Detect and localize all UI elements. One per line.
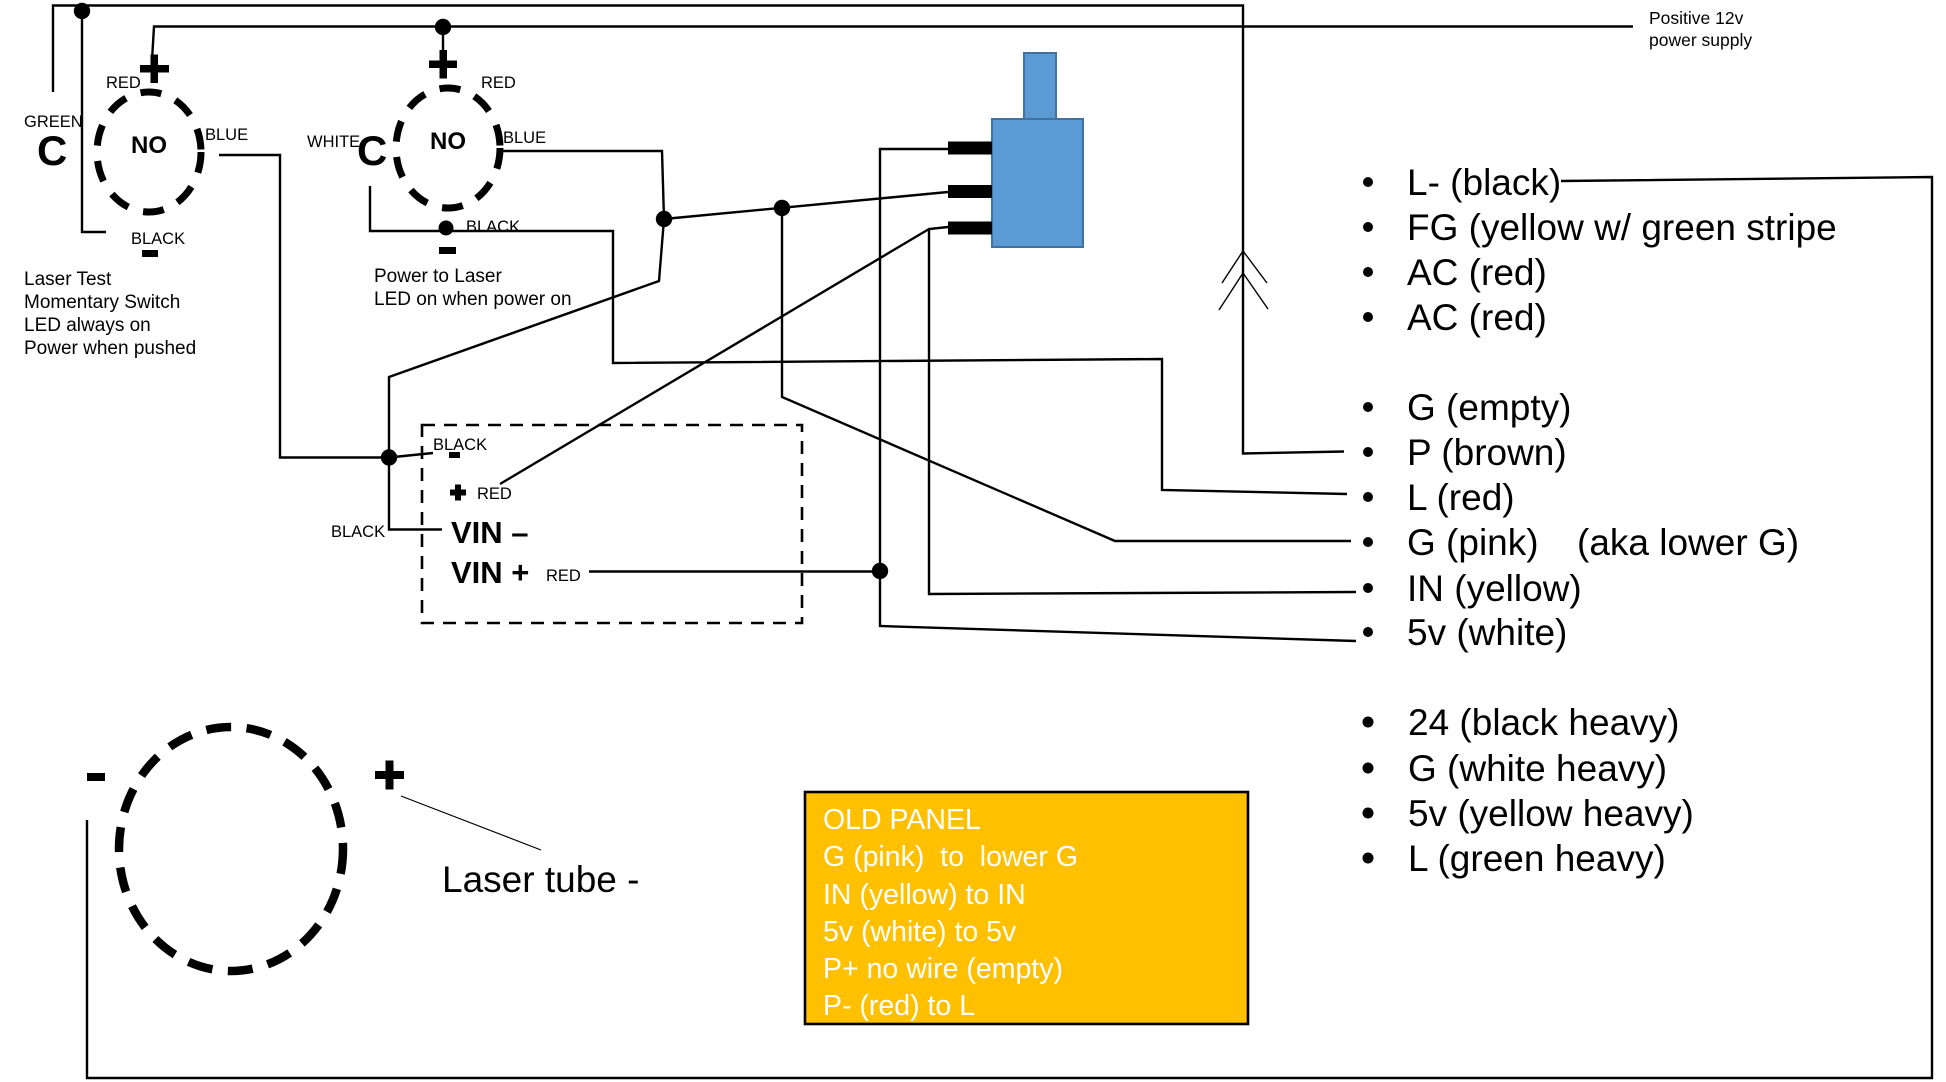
wire: switch1 BLACK terminal up to top rail	[82, 10, 106, 232]
laser tube: dashed circle	[119, 727, 343, 971]
node IN (yellow)	[1363, 568, 1582, 609]
node FG (yellow w/ green stripe	[1363, 207, 1837, 248]
terminal list: heavy block	[1363, 702, 1694, 879]
node: junction top rail / switch1 black	[74, 3, 90, 19]
svg-text:BLUE: BLUE	[503, 129, 546, 147]
switch S2 momentary: dashed circle	[396, 88, 500, 208]
switch S2 plus terminal	[429, 50, 457, 79]
node L- (black)	[1363, 162, 1561, 203]
svg-text:Laser tube -: Laser tube -	[442, 859, 639, 900]
svg-text:NO: NO	[430, 128, 466, 155]
wire: box + RED diagonal to connector pin3	[500, 227, 948, 484]
connector J1 pin 2	[948, 185, 992, 198]
svg-text:L (green heavy): L (green heavy)	[1408, 838, 1666, 879]
svg-text:5v (white) to 5v: 5v (white) to 5v	[823, 916, 1017, 948]
wire: node D1 down-left to VIN- junction	[389, 219, 664, 458]
node L (green heavy)	[1363, 838, 1666, 879]
svg-text:G (pink) to lower G: G (pink) to lower G	[823, 841, 1078, 873]
wire: VIN+ RED to junction	[589, 570, 880, 572]
svg-text:BLACK: BLACK	[131, 230, 185, 248]
box minus terminal	[449, 452, 460, 458]
note: OLD PANEL yellow box	[805, 792, 1248, 1024]
svg-text:C: C	[357, 127, 387, 174]
svg-text:LED always on: LED always on	[24, 315, 151, 336]
svg-text:Laser Test: Laser Test	[24, 269, 112, 290]
node D1: junction switch2 blue / pin2 line	[656, 211, 672, 227]
svg-text:IN (yellow) to IN: IN (yellow) to IN	[823, 879, 1026, 911]
switch S1 minus terminal	[142, 250, 158, 257]
node AC (red) 2	[1363, 297, 1547, 338]
laser tube plus terminal	[375, 761, 404, 790]
node D2: junction pin2 line / G pink drop	[774, 200, 790, 216]
wire: switch2 BLUE down to node D1	[497, 151, 664, 219]
connector J1 pin 3	[948, 222, 992, 235]
svg-text:AC (red): AC (red)	[1407, 252, 1547, 293]
svg-text:Positive 12v: Positive 12v	[1649, 8, 1744, 28]
svg-text:P- (red) to L: P- (red) to L	[823, 990, 975, 1022]
wire: node D2 down then diagonal to G (pink)	[782, 208, 1351, 541]
svg-text:LED on when power on: LED on when power on	[374, 289, 572, 310]
svg-text:RED: RED	[106, 74, 141, 92]
annotation pointer line: laser tube + to label	[401, 796, 541, 850]
wire: connector pin1 down through VIN+ junction to 5v (white)	[880, 149, 1356, 641]
wire: VIN- junction to box minus terminal	[389, 453, 433, 458]
svg-text:BLACK: BLACK	[433, 436, 487, 454]
svg-text:VIN +: VIN +	[451, 555, 529, 590]
svg-text:5v (yellow heavy): 5v (yellow heavy)	[1408, 793, 1694, 834]
node G (pink) aka lower G	[1363, 522, 1799, 563]
node 5v (white)	[1363, 612, 1567, 653]
svg-text:5v (white): 5v (white)	[1407, 612, 1567, 653]
node G (empty)	[1363, 387, 1571, 428]
node: VIN+ junction	[872, 563, 888, 579]
wire net B: 12v rail from switch1 + to Positive 12v power supply	[152, 27, 1633, 61]
switch S2 minus terminal	[439, 247, 456, 254]
svg-text:AC (red): AC (red)	[1407, 297, 1547, 338]
node: VIN- junction	[381, 449, 397, 465]
box plus terminal	[450, 485, 466, 501]
wire: pin3 drop to IN (yellow)	[929, 229, 1356, 594]
connector J1: blue plug body	[992, 53, 1083, 247]
node AC (red) 1	[1363, 252, 1547, 293]
node P (brown)	[1363, 432, 1567, 473]
svg-text:RED: RED	[477, 485, 512, 503]
svg-text:IN (yellow): IN (yellow)	[1407, 568, 1582, 609]
svg-text:C: C	[37, 127, 67, 174]
svg-text:24 (black heavy): 24 (black heavy)	[1408, 702, 1679, 743]
svg-text:Power to Laser: Power to Laser	[374, 266, 502, 287]
svg-text:BLACK: BLACK	[466, 218, 520, 236]
svg-text:G (empty): G (empty)	[1407, 387, 1571, 428]
annotation: laser test switch caption	[24, 269, 196, 359]
node: junction 12v rail / switch2 +	[435, 19, 451, 35]
power supply module: dashed box	[422, 425, 802, 623]
switch S1 momentary: dashed circle	[97, 92, 201, 212]
wire: node D1 to connector pin 2	[664, 192, 948, 219]
svg-text:Power when pushed: Power when pushed	[24, 338, 196, 359]
svg-text:G (pink): G (pink)	[1407, 522, 1539, 563]
svg-text:RED: RED	[481, 74, 516, 92]
svg-text:VIN –: VIN –	[451, 515, 529, 550]
svg-text:BLACK: BLACK	[331, 523, 385, 541]
svg-text:P+ no wire (empty): P+ no wire (empty)	[823, 953, 1063, 985]
arrow chevron 1 on net A vertical	[1222, 251, 1267, 283]
wire net A: top rail from switch1 C terminal to P (brown)	[53, 6, 1344, 454]
annotation: positive 12v power supply	[1649, 8, 1752, 50]
svg-text:G (white heavy): G (white heavy)	[1408, 748, 1667, 789]
svg-text:NO: NO	[131, 132, 167, 159]
connector J1 pin 1	[948, 142, 992, 155]
node L (red)	[1363, 477, 1515, 518]
svg-text:P (brown): P (brown)	[1407, 432, 1567, 473]
annotation: power to laser caption	[374, 266, 572, 310]
node: switch2 minus terminal	[439, 221, 454, 236]
switch S1 plus terminal	[140, 55, 169, 84]
svg-text:L (red): L (red)	[1407, 477, 1515, 518]
svg-text:OLD PANEL: OLD PANEL	[823, 804, 981, 836]
svg-text:RED: RED	[546, 567, 581, 585]
node G (white heavy)	[1363, 748, 1668, 789]
svg-text:Momentary Switch: Momentary Switch	[24, 292, 180, 313]
wire: VIN- junction down to VIN- pin	[389, 458, 442, 530]
node 5v (yellow heavy)	[1363, 793, 1694, 834]
wire: L- (black) long loop to laser tube minus	[87, 177, 1932, 1078]
wire: stub switch2 + to 12v rail	[442, 27, 444, 55]
node 24 (black heavy)	[1363, 702, 1680, 743]
svg-text:BLUE: BLUE	[205, 126, 248, 144]
svg-text:FG (yellow w/ green stripe: FG (yellow w/ green stripe	[1407, 207, 1837, 248]
laser tube minus terminal	[87, 773, 105, 781]
arrow chevron 2 on net A vertical	[1219, 273, 1268, 310]
wire: switch2 C/- terminal to L (red)	[370, 186, 1347, 494]
svg-text:(aka lower G): (aka lower G)	[1577, 522, 1799, 563]
svg-text:power supply: power supply	[1649, 30, 1752, 50]
svg-text:WHITE: WHITE	[307, 133, 360, 151]
svg-text:L- (black): L- (black)	[1407, 162, 1561, 203]
wire: switch1 BLUE down to VIN- junction	[219, 155, 389, 458]
terminal list: upper block	[1363, 162, 1837, 653]
